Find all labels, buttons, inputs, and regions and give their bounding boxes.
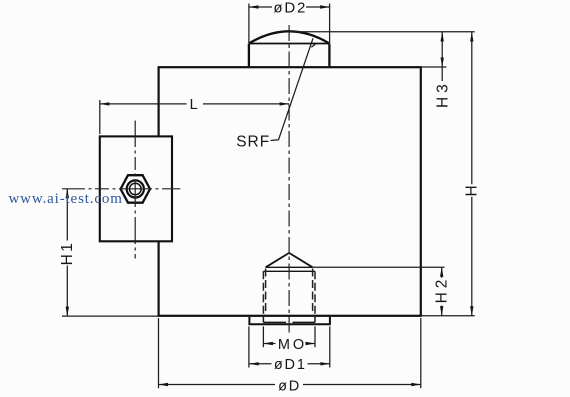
thread shoulder extension (H2 top) xyxy=(313,266,445,268)
svg-text:L: L xyxy=(190,97,198,113)
svg-text:SRF: SRF xyxy=(236,133,270,150)
arrow H3 bottom xyxy=(441,58,444,68)
arrow ØD left xyxy=(159,383,169,386)
dim ØD2 extension left xyxy=(248,4,250,44)
arrow MO left xyxy=(263,342,273,345)
dim H1 line xyxy=(66,189,68,316)
hex nut on cable entry xyxy=(121,175,150,203)
body bottom right extension xyxy=(422,315,475,317)
arrow ØD1 left xyxy=(249,362,259,365)
top extension (dome peak to H) xyxy=(290,31,475,33)
svg-text:H: H xyxy=(464,185,481,196)
dim ØD2 line xyxy=(249,6,330,8)
arrow H3 top xyxy=(441,32,444,42)
arrow L right xyxy=(280,102,290,105)
svg-text:H1: H1 xyxy=(59,241,76,266)
svg-text:øD2: øD2 xyxy=(273,0,307,17)
SRF leader xyxy=(271,38,316,140)
dim H line xyxy=(471,32,473,316)
dim L extension xyxy=(99,100,101,134)
arrowheads xyxy=(66,5,474,386)
arrow H1 bottom xyxy=(66,307,69,317)
body top right extension xyxy=(422,66,447,68)
arrow H2 bottom xyxy=(440,306,443,316)
svg-text:MO: MO xyxy=(278,337,307,353)
arrow H bottom xyxy=(470,306,473,316)
arrow H1 top xyxy=(66,189,69,199)
arrow ØD right xyxy=(411,383,421,386)
load button dome xyxy=(249,31,330,66)
arrow ØD2 left xyxy=(249,5,259,8)
svg-text:øD1: øD1 xyxy=(274,357,307,373)
dim ØD line xyxy=(159,384,421,386)
main vertical centerline xyxy=(288,25,290,333)
svg-text:H2: H2 xyxy=(434,276,451,304)
dim ØD1 line xyxy=(249,363,330,365)
dim H1 bottom extension xyxy=(62,315,158,317)
dim ØD2 extension right xyxy=(329,4,331,44)
side cable entry box xyxy=(100,136,172,241)
cable entry horizontal centerline / H1 top extension xyxy=(62,188,180,190)
dim MO line xyxy=(263,343,315,345)
arrow MO right xyxy=(306,342,316,345)
thin lines group xyxy=(62,4,475,389)
dim H3 line xyxy=(441,32,443,81)
svg-text:øD: øD xyxy=(278,379,301,395)
dim ØD1 extensions xyxy=(249,326,330,367)
svg-text:www.ai-test.com: www.ai-test.com xyxy=(9,191,123,207)
arrow H top xyxy=(470,32,473,42)
dim ØD extensions xyxy=(159,318,421,388)
main body outline xyxy=(159,67,421,316)
dim MO extensions xyxy=(263,326,315,347)
svg-text:H3: H3 xyxy=(434,80,451,108)
dim H2 line xyxy=(441,267,443,316)
cable entry vertical centerline xyxy=(134,121,136,259)
thread chevron (drill point) xyxy=(263,253,315,271)
arrow ØD1 right xyxy=(320,362,330,365)
thread hidden verticals xyxy=(263,269,315,317)
dim L line xyxy=(100,103,289,105)
arrow H2 top xyxy=(440,267,443,277)
arrow L left xyxy=(100,102,110,105)
thread relief inside boss xyxy=(263,317,315,323)
bottom boss xyxy=(249,317,330,324)
arrow ØD2 right xyxy=(320,5,330,8)
